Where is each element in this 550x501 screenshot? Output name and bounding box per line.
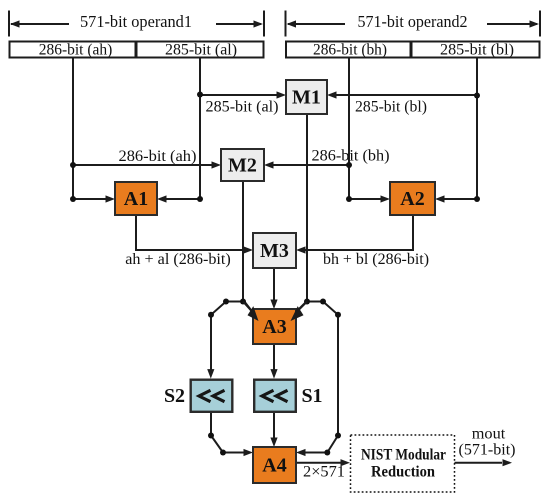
svg-text:M2: M2 [228, 155, 257, 177]
svg-text:285-bit (bl): 285-bit (bl) [355, 99, 427, 116]
svg-text:mout: mout [472, 426, 506, 443]
svg-text:286-bit (ah): 286-bit (ah) [39, 42, 113, 59]
svg-text:286-bit (bh): 286-bit (bh) [312, 148, 390, 165]
svg-text:bh + bl (286-bit): bh + bl (286-bit) [323, 251, 429, 268]
svg-text:ah + al (286-bit): ah + al (286-bit) [125, 251, 231, 268]
svg-text:285-bit (al): 285-bit (al) [206, 99, 279, 116]
svg-text:A2: A2 [400, 188, 424, 210]
svg-text:M1: M1 [292, 87, 321, 109]
svg-text:571-bit operand2: 571-bit operand2 [358, 12, 468, 31]
svg-text:A4: A4 [262, 455, 286, 477]
svg-text:285-bit (al): 285-bit (al) [165, 42, 237, 59]
svg-text:A1: A1 [124, 188, 148, 210]
svg-text:S1: S1 [301, 385, 322, 407]
svg-text:285-bit (bl): 285-bit (bl) [440, 42, 514, 59]
svg-text:NIST Modular: NIST Modular [361, 447, 446, 464]
svg-text:S2: S2 [164, 385, 185, 407]
svg-text:Reduction: Reduction [371, 464, 435, 481]
svg-text:571-bit operand1: 571-bit operand1 [80, 12, 192, 31]
svg-text:286-bit (ah): 286-bit (ah) [119, 148, 197, 165]
svg-text:(571-bit): (571-bit) [459, 442, 516, 459]
svg-text:M3: M3 [260, 240, 289, 262]
svg-text:2×571: 2×571 [303, 464, 345, 481]
svg-text:A3: A3 [262, 316, 286, 338]
svg-text:286-bit (bh): 286-bit (bh) [313, 42, 387, 59]
